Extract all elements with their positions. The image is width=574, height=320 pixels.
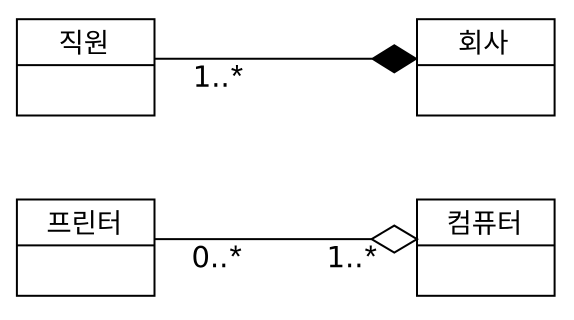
- multiplicity label 1..* (top): [196, 65, 243, 87]
- class box 직원 (Employee): [17, 19, 155, 115]
- class name text 컴퓨터: [448, 210, 518, 235]
- class name text 직원: [60, 30, 106, 55]
- class name text 회사: [460, 30, 508, 55]
- filled composition diamond at 회사 end: [372, 45, 417, 73]
- multiplicity label 1..* (bottom right): [330, 245, 377, 267]
- aggregation association wire 프린터-컴퓨터: [155, 238, 373, 240]
- class box 프린터 (Printer): [17, 200, 155, 296]
- open aggregation diamond at 컴퓨터 end: [372, 226, 417, 253]
- composition association wire 직원-회사: [155, 58, 373, 60]
- class box 회사 (Company): [417, 19, 555, 115]
- multiplicity label 0..* (bottom left): [193, 245, 241, 267]
- class box 컴퓨터 (Computer): [417, 200, 555, 296]
- class name text 프린터: [48, 210, 119, 235]
